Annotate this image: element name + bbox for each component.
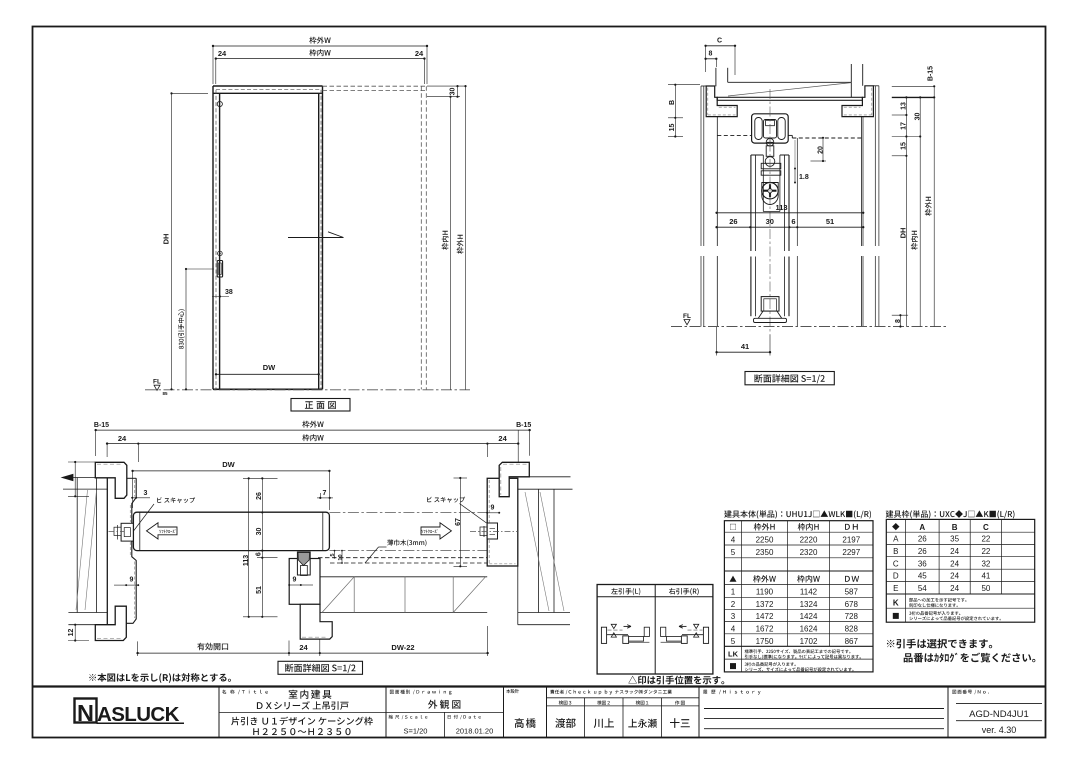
wall framing bays — [320, 576, 487, 578]
svg-text:38: 38 — [225, 289, 233, 296]
door centerline — [769, 89, 771, 335]
svg-text:24: 24 — [498, 434, 507, 443]
dim 9 right — [487, 512, 499, 514]
svg-text:5: 5 — [731, 548, 736, 557]
right wall — [529, 476, 570, 478]
svg-text:24: 24 — [950, 547, 959, 556]
svg-text:5: 5 — [330, 553, 336, 556]
hidden door edge dashed — [215, 90, 217, 390]
right jamb body — [487, 478, 518, 566]
svg-text:728: 728 — [845, 612, 859, 621]
svg-text:1324: 1324 — [800, 600, 818, 609]
svg-text:54: 54 — [918, 584, 927, 593]
svg-text:1: 1 — [731, 588, 736, 597]
title block vertical dividers — [218, 687, 220, 738]
svg-text:30: 30 — [915, 113, 922, 121]
svg-text:2350: 2350 — [756, 548, 774, 557]
dim 38 handle offset — [219, 279, 221, 297]
svg-text:67: 67 — [455, 518, 462, 526]
svg-text:1.8: 1.8 — [799, 174, 809, 181]
handle caption — [628, 676, 724, 685]
svg-text:1672: 1672 — [756, 624, 774, 633]
svg-text:24: 24 — [950, 559, 959, 568]
screw cap label right — [427, 497, 465, 503]
svg-text:S=1/20: S=1/20 — [404, 727, 428, 736]
svg-text:1472: 1472 — [756, 612, 774, 621]
dim 12 — [74, 625, 76, 641]
dim 41 — [717, 351, 770, 353]
pocket board face — [796, 138, 798, 246]
dim 830 handle center — [185, 269, 187, 389]
svg-text:20: 20 — [818, 146, 825, 154]
svg-text:867: 867 — [845, 637, 859, 646]
NASLUCK logo underline — [97, 722, 185, 724]
svg-text:10: 10 — [338, 554, 344, 560]
svg-text:C: C — [983, 523, 989, 532]
dim 67 — [459, 478, 461, 566]
svg-text:41: 41 — [741, 342, 749, 351]
floor dash-dot — [671, 326, 948, 328]
extension lines top — [212, 46, 214, 84]
svg-text:113: 113 — [243, 555, 250, 566]
svg-text:A: A — [893, 535, 899, 544]
thin baseboard dashed lines — [318, 557, 518, 559]
left jamb body — [106, 478, 108, 625]
wall finish lines right — [874, 86, 876, 246]
svg-text:22: 22 — [981, 535, 990, 544]
svg-text:26: 26 — [256, 492, 263, 500]
svg-text:24: 24 — [950, 572, 959, 581]
dim DW — [133, 470, 330, 472]
svg-text:26: 26 — [918, 535, 927, 544]
svg-text:B-15: B-15 — [94, 422, 109, 429]
svg-text:32: 32 — [981, 559, 990, 568]
svg-text:1190: 1190 — [756, 588, 774, 597]
hanger pin circle — [766, 138, 774, 146]
svg-text:3: 3 — [144, 490, 148, 497]
svg-text:B-15: B-15 — [928, 66, 935, 81]
svg-text:8: 8 — [709, 51, 713, 58]
svg-text:17: 17 — [901, 122, 908, 130]
title: approver cell — [506, 689, 519, 693]
soft close arrow right — [421, 523, 451, 539]
title: checkers cell — [550, 690, 672, 695]
svg-text:22: 22 — [981, 547, 990, 556]
head jamb bar — [717, 97, 862, 100]
left casing profile — [706, 86, 737, 117]
hanger rail housing — [752, 114, 789, 143]
left wall lines — [63, 477, 95, 479]
svg-text:5: 5 — [731, 637, 736, 646]
svg-text:LK: LK — [728, 650, 739, 659]
center post — [289, 559, 320, 605]
pocket inner faces — [716, 117, 718, 246]
door panel (plan) — [133, 512, 329, 550]
extension lines top — [95, 430, 97, 456]
svg-text:8: 8 — [895, 319, 902, 323]
dim 20 — [822, 138, 824, 161]
NASLUCK logo N box — [75, 699, 97, 723]
door bottom edge — [213, 388, 323, 390]
svg-text:113: 113 — [775, 203, 787, 212]
svg-text:FL: FL — [153, 379, 161, 386]
svg-text:828: 828 — [845, 624, 859, 633]
svg-text:24: 24 — [415, 49, 424, 58]
soft close catch — [121, 523, 133, 541]
svg-text:C: C — [893, 559, 899, 568]
svg-text:B: B — [893, 547, 898, 556]
wall studs above — [715, 68, 717, 87]
113 dim column — [248, 478, 250, 616]
svg-text:AGD-ND4JU1: AGD-ND4JU1 — [969, 709, 1029, 720]
薄巾木 label — [387, 540, 426, 547]
handle (引手) — [218, 251, 223, 256]
dim 3 — [131, 497, 150, 499]
svg-text:2197: 2197 — [842, 535, 860, 544]
svg-text:2: 2 — [731, 600, 736, 609]
svg-text:2297: 2297 — [842, 548, 860, 557]
svg-text:7: 7 — [323, 490, 327, 497]
svg-text:2220: 2220 — [800, 535, 818, 544]
dim B left — [674, 85, 676, 137]
svg-text:30: 30 — [450, 88, 457, 96]
svg-text:1372: 1372 — [756, 600, 774, 609]
left top casing profile — [95, 462, 127, 498]
dim 枠内W with 24/24 — [216, 58, 425, 60]
svg-text:4: 4 — [731, 624, 736, 633]
rail rollers — [755, 118, 762, 140]
svg-text:1424: 1424 — [800, 612, 818, 621]
right casing profile — [842, 86, 873, 117]
svg-text:24: 24 — [299, 643, 308, 652]
left bottom casing profile — [95, 606, 126, 640]
frame opening dashed (pocket side) — [323, 85, 427, 87]
dim 枠内W with 24s — [107, 443, 518, 445]
svg-text:4: 4 — [731, 535, 736, 544]
dim 8 bottom right — [899, 315, 901, 326]
svg-text:24: 24 — [118, 434, 127, 443]
svg-text:12: 12 — [68, 629, 75, 637]
svg-text:15: 15 — [669, 124, 676, 132]
svg-text:B: B — [669, 100, 676, 105]
TABLE 建具本体 — [724, 510, 871, 518]
svg-text:9: 9 — [130, 577, 134, 584]
svg-text:N: N — [77, 700, 94, 726]
dim 113 — [717, 212, 864, 214]
dim 9 post — [289, 584, 301, 586]
svg-text:30: 30 — [256, 528, 263, 536]
dim 枠外W top — [213, 45, 427, 47]
screw cap right — [487, 523, 497, 539]
svg-text:30: 30 — [766, 217, 774, 226]
svg-text:587: 587 — [845, 588, 859, 597]
svg-text:9: 9 — [293, 577, 297, 584]
title: history cell — [703, 690, 760, 695]
svg-text:D: D — [893, 572, 899, 581]
svg-text:K: K — [893, 598, 899, 607]
svg-text:DW: DW — [222, 460, 235, 469]
svg-text:9: 9 — [491, 505, 495, 512]
TABLE 建具枠 — [886, 510, 1015, 518]
dim 7 — [329, 471, 331, 510]
svg-text:DW: DW — [263, 363, 276, 372]
hanger bolt — [766, 146, 774, 157]
svg-text:6: 6 — [791, 217, 795, 226]
dim 1.8 — [794, 140, 796, 169]
door phantom dash-dot — [329, 511, 517, 513]
door stop fin edge — [127, 477, 136, 479]
svg-text:1750: 1750 — [756, 637, 774, 646]
ceiling line and board diagonal — [728, 81, 852, 83]
svg-text:2250: 2250 — [756, 535, 774, 544]
svg-text:DH: DH — [899, 228, 908, 239]
title: name cell labels — [222, 690, 268, 695]
door stopper circle — [217, 101, 222, 106]
right cell diagram — [703, 627, 708, 643]
svg-text:36: 36 — [918, 559, 927, 568]
screw cap label left — [157, 497, 195, 503]
svg-text:35: 35 — [950, 535, 959, 544]
title: drawing cell — [390, 690, 452, 695]
dims 5 and 10 — [334, 551, 336, 558]
svg-text:1142: 1142 — [800, 588, 818, 597]
label box 正面図 — [291, 399, 350, 412]
svg-text:26: 26 — [729, 217, 737, 226]
notes 引手 — [887, 639, 992, 649]
screw housing oval — [762, 183, 778, 205]
dim 枠外H — [465, 86, 467, 390]
dim 枠内H — [450, 97, 452, 390]
soffit dashed lines — [717, 134, 751, 136]
svg-text:ver. 4.30: ver. 4.30 — [982, 725, 1017, 735]
svg-text:C: C — [717, 38, 722, 45]
label box 断面詳細図 S=1/2 (lower) — [278, 661, 363, 674]
adjust screw (phillips) — [762, 183, 778, 199]
svg-text:1702: 1702 — [800, 637, 818, 646]
svg-text:26: 26 — [918, 547, 927, 556]
dim 8 — [706, 58, 717, 60]
svg-text:51: 51 — [256, 586, 263, 594]
left B dim — [74, 462, 76, 496]
wall finish lines left — [700, 86, 702, 246]
dim 枠外W — [96, 429, 530, 431]
svg-text:41: 41 — [981, 572, 990, 581]
bottom guide — [761, 297, 779, 312]
right dim stack — [905, 97, 907, 326]
svg-text:50: 50 — [981, 584, 990, 593]
svg-text:A: A — [919, 523, 925, 532]
svg-text:15: 15 — [901, 142, 908, 150]
right jamb casing — [499, 462, 529, 496]
svg-text:24: 24 — [218, 49, 227, 58]
svg-text:B-15: B-15 — [516, 422, 531, 429]
door panel (section) — [750, 155, 752, 251]
door bottom guide — [297, 552, 310, 575]
title block top border — [33, 685, 1046, 687]
label box 断面詳細図 S=1/2 (upper) — [745, 372, 834, 385]
svg-text:2018.01.20: 2018.01.20 — [456, 727, 494, 736]
floor dash-dot line — [145, 389, 470, 391]
adjuster bands — [761, 163, 781, 169]
svg-text:DW-22: DW-22 — [391, 643, 414, 652]
svg-text:DH: DH — [162, 234, 171, 245]
door frame solid outline — [213, 85, 323, 87]
dim DW bottom rail — [216, 373, 319, 375]
svg-text:24: 24 — [950, 584, 959, 593]
svg-text:E: E — [893, 584, 898, 593]
dims 26/30/6/51 — [717, 226, 864, 228]
soft close arrow left — [147, 523, 178, 539]
left cell diagram — [601, 627, 606, 643]
dim 30 top right — [427, 85, 467, 87]
svg-text:FL: FL — [683, 313, 691, 320]
svg-text:85: 85 — [162, 391, 168, 396]
svg-text:6: 6 — [256, 552, 263, 556]
dim DH — [171, 93, 173, 389]
slide direction arrow — [288, 237, 344, 239]
svg-text:1624: 1624 — [800, 624, 818, 633]
HANDLE SELECT TABLE — [597, 585, 713, 675]
svg-text:2320: 2320 — [800, 548, 818, 557]
svg-text:13: 13 — [901, 102, 908, 110]
svg-text:678: 678 — [845, 600, 859, 609]
dim 9 left — [126, 584, 138, 586]
note L/R — [89, 673, 231, 683]
dim C — [706, 45, 735, 47]
title: drawing number cell — [952, 690, 988, 695]
bottom dims 有効開口/24/DW-22 — [138, 652, 488, 654]
svg-text:B: B — [952, 523, 958, 532]
svg-text:3: 3 — [731, 612, 736, 621]
svg-text:45: 45 — [918, 572, 927, 581]
svg-text:51: 51 — [826, 217, 834, 226]
